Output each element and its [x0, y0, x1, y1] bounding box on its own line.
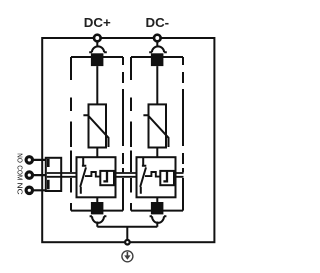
terminal NC	[26, 187, 32, 193]
varistor RV2	[149, 104, 167, 147]
wire disconnector box to bottom plug	[96, 197, 98, 202]
module 1 dashed cartridge box	[71, 56, 123, 58]
plug pin contact (top, module 1)	[91, 53, 104, 66]
status indicator inside U1	[100, 171, 114, 185]
wire DC+ terminal to plug socket	[96, 41, 98, 46]
svg-text:DC+: DC+	[84, 15, 111, 30]
terminal DC+	[94, 35, 101, 42]
thermal disconnector / monitoring box U2	[137, 157, 176, 197]
plug-in socket contact (top, module 1)	[89, 46, 107, 52]
earth terminal node	[125, 240, 130, 245]
plug pin contact (bottom, module 1)	[91, 202, 104, 214]
thermal element meander inside U1	[85, 172, 100, 177]
terminal DC-	[154, 35, 161, 42]
plug-in socket contact (bottom, module 1)	[90, 216, 107, 223]
plug-in socket contact (top, module 2)	[149, 46, 167, 52]
terminal COM	[26, 172, 32, 178]
wire varistor to disconnector box	[96, 148, 98, 158]
mechanical linkage double line	[47, 173, 184, 177]
wire DC- terminal to plug socket	[156, 41, 158, 46]
wires terminals to contact block	[34, 160, 47, 190]
remote contact block	[46, 158, 61, 191]
varistor RV1	[89, 104, 107, 147]
plug pin contact (bottom, module 2)	[151, 202, 164, 214]
svg-text:NO: NO	[16, 153, 25, 163]
SPD module 2 (DC-)	[131, 41, 183, 227]
svg-text:NC: NC	[16, 183, 25, 196]
wire varistor to disconnector box	[156, 148, 158, 158]
wire bottom plug to earth bus	[96, 222, 98, 227]
earth symbol	[122, 251, 133, 262]
contact bar lower	[47, 180, 50, 190]
SPD module 1 (DC+)	[71, 41, 123, 227]
wire joining both modules to earth terminal	[97, 227, 157, 242]
svg-text:DC-: DC-	[145, 15, 169, 30]
svg-text:COM: COM	[16, 165, 25, 180]
plug-in socket contact (bottom, module 2)	[150, 216, 167, 223]
outer enclosure box	[42, 38, 214, 242]
thermal disconnector / monitoring box U1	[77, 157, 116, 197]
module 2 dashed cartridge box	[131, 56, 183, 58]
wire plug to varistor RV2	[156, 66, 158, 104]
plug pin contact (top, module 2)	[151, 53, 164, 66]
wire plug to varistor RV1	[96, 66, 98, 104]
terminal NO	[26, 157, 32, 163]
wire bottom plug to earth bus	[156, 222, 158, 227]
contact bar upper	[47, 159, 50, 167]
switch contact inside U2	[140, 158, 146, 194]
thermal element meander inside U2	[145, 172, 160, 177]
switch contact inside U1	[80, 158, 86, 194]
wire disconnector box to bottom plug	[156, 197, 158, 202]
status indicator inside U2	[160, 171, 174, 185]
